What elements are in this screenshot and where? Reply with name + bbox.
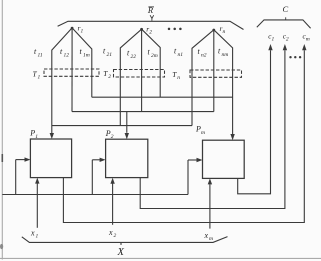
svg-text:m: m: [209, 236, 213, 242]
svg-text:12: 12: [64, 53, 70, 59]
svg-text:R: R: [147, 5, 154, 15]
svg-text:2: 2: [108, 74, 111, 80]
svg-text:X: X: [117, 247, 125, 258]
svg-text:n: n: [223, 29, 226, 35]
svg-text:nm: nm: [222, 52, 229, 58]
svg-text:1: 1: [81, 29, 84, 35]
svg-text:m: m: [201, 130, 205, 136]
svg-text:1m: 1m: [83, 53, 90, 59]
svg-text:m: m: [306, 37, 310, 43]
svg-text:x: x: [204, 231, 209, 240]
svg-text:n: n: [177, 75, 180, 81]
svg-text:1: 1: [35, 134, 38, 140]
svg-text:2: 2: [114, 233, 117, 239]
svg-text:2: 2: [149, 30, 152, 36]
svg-text:x: x: [30, 229, 35, 238]
svg-text:2: 2: [286, 37, 289, 43]
svg-text:x: x: [108, 228, 113, 237]
svg-text:C: C: [283, 4, 289, 14]
svg-text:1: 1: [36, 234, 39, 240]
svg-text:11: 11: [38, 53, 43, 59]
svg-text:1: 1: [272, 37, 275, 43]
svg-text:21: 21: [107, 52, 113, 58]
svg-text:1: 1: [38, 75, 41, 81]
svg-text:n2: n2: [201, 53, 207, 59]
svg-text:n1: n1: [178, 52, 184, 58]
svg-text:22: 22: [131, 54, 137, 60]
svg-text:2m: 2m: [151, 53, 158, 59]
svg-text:2: 2: [111, 134, 114, 140]
